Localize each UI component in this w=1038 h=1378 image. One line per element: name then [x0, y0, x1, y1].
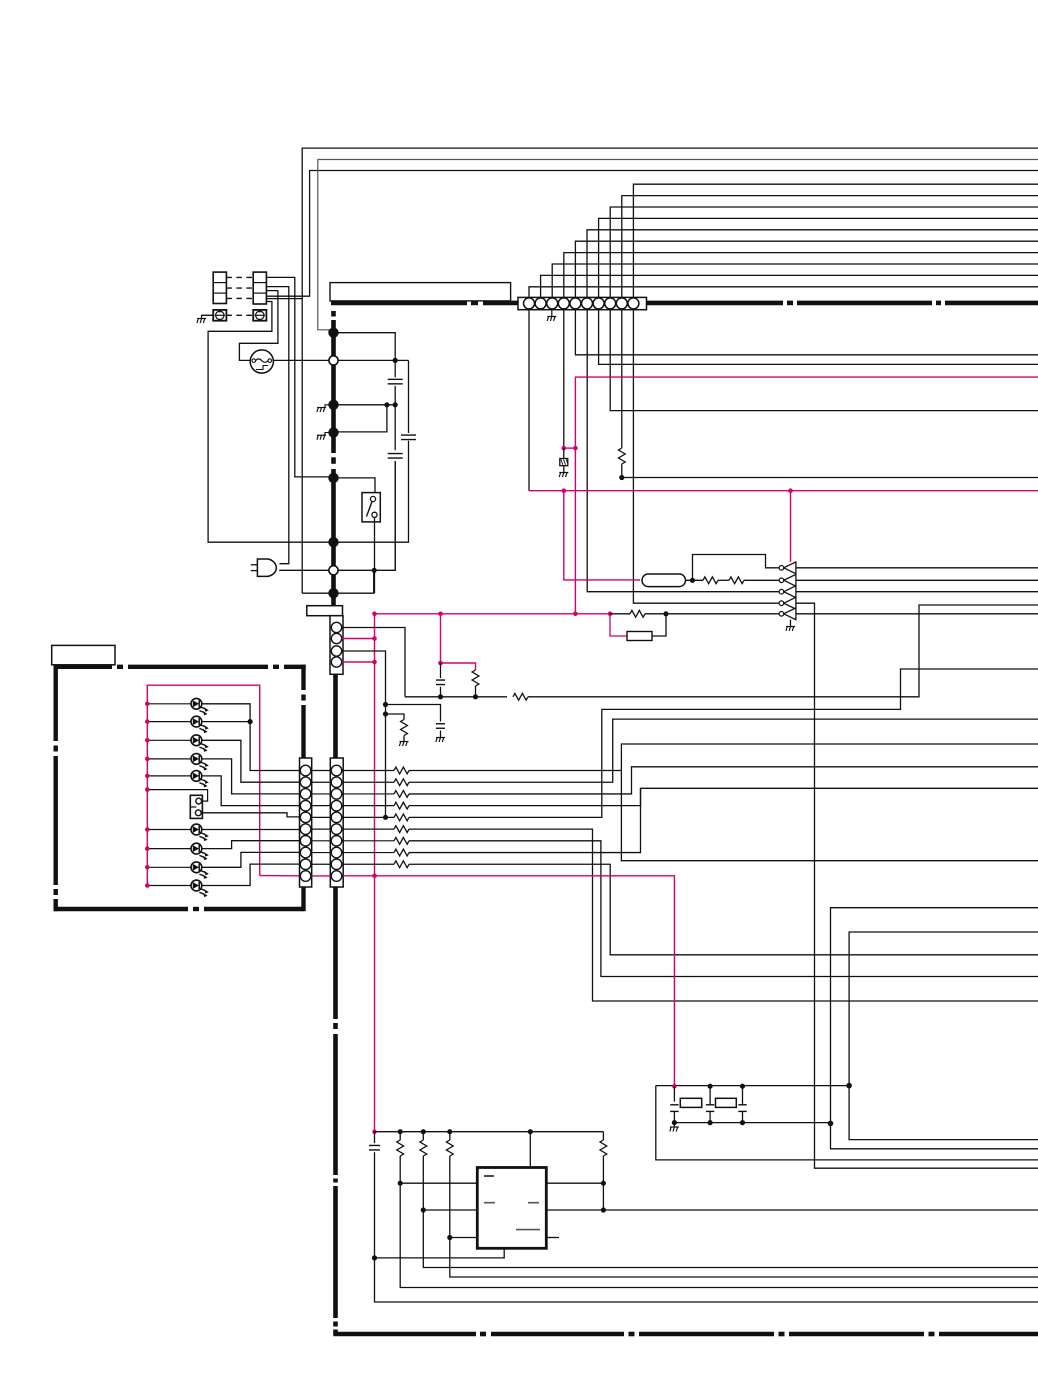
wire CN5 row4 to resistor: [343, 805, 394, 807]
caps cluster bottom rail: [674, 1122, 830, 1124]
wire LED D2 cathode to CN4 row1: [202, 721, 250, 723]
junction dot pin left1: [398, 1181, 403, 1186]
resistor R14: [394, 814, 409, 821]
wire row9 jog to line y954: [409, 864, 1038, 955]
wire J1 to ground: [202, 315, 214, 318]
dashed mating wires P1-P2: [226, 277, 253, 298]
wire R21 node to line y1277: [450, 1238, 1038, 1278]
cap C8: [742, 1086, 744, 1105]
bus junction dot C (protector node): [328, 473, 338, 483]
wire CN5 row2 to resistor: [343, 781, 394, 783]
connector CN2 housing: [330, 616, 343, 675]
junction dot C9 bottom: [372, 1255, 377, 1260]
AC plug PL1: [257, 559, 276, 576]
resistor R21: [449, 1132, 451, 1140]
staircase wire from CN1 pin 1 to right edge: [529, 287, 1038, 298]
thick bus below CN5 (long, to bottom): [333, 887, 338, 1019]
LED D10 anode wire: [147, 885, 191, 887]
caps cluster left side + bottom line: [656, 1086, 1038, 1160]
thick chassis bus (horizontal right segment): [647, 301, 784, 306]
ferrite bead FB1 (box): [627, 632, 652, 641]
magenta junction LED D8: [145, 846, 150, 851]
junction dot D1/D2: [248, 719, 253, 724]
junction dots on y697: [438, 694, 443, 699]
resistor R2: [703, 577, 718, 584]
buffer1 output line: [796, 567, 1038, 569]
junction dot loop top: [384, 402, 389, 407]
connector CN5 pin 9: [331, 859, 342, 870]
connector CN1 pin 3: [547, 298, 558, 309]
wire IC pin left2: [423, 1209, 477, 1211]
magenta junction dot VCC1/buffer: [788, 488, 793, 493]
wire cap chain mid: [394, 360, 396, 377]
connector CN4 pin 7: [300, 836, 311, 847]
bus junction dot with ground B: [328, 427, 338, 437]
junction dot pin left2: [421, 1207, 426, 1212]
junction dot R1 bottom: [619, 475, 624, 480]
interconnect wire row 9: [312, 863, 331, 865]
wire LED D7 cathode to CN4 row6: [202, 829, 299, 831]
connector CN1 housing (10-pin row): [518, 297, 647, 309]
wire P2 pin3 to AC source: [239, 291, 278, 361]
wire LED D4 cathode to CN4 row3: [202, 759, 299, 794]
connector CN2 pin 3: [331, 646, 341, 656]
wire bus circle to cap chain bottom: [338, 461, 395, 570]
resistor R17: [394, 849, 409, 856]
interconnect wire row 6: [312, 828, 331, 830]
cap C3 (right loop): [401, 435, 416, 440]
connector CN4 pin 4: [300, 800, 311, 811]
cap C9: [374, 1132, 376, 1144]
wire R4 to node: [645, 613, 666, 615]
cap C2 (chain bottom): [388, 454, 403, 459]
wire loop dotA-dotB: [334, 405, 387, 432]
junction dot switch/plug wire: [372, 568, 377, 573]
magenta junction LED D1: [145, 702, 150, 707]
LED D5 anode wire: [147, 775, 191, 777]
wire row2 jog to line y719: [409, 719, 1038, 782]
LED D3: [191, 735, 209, 752]
junction dot on cap chain: [393, 402, 398, 407]
AC receptacle J2: [253, 310, 266, 321]
module label box: [52, 645, 115, 664]
wire P2 pin2 to AC plug: [266, 287, 288, 564]
wire loop P2 bottom to cap chain: [208, 302, 408, 543]
connector CN5 pin 10: [331, 871, 342, 882]
AC receptacle J1: [213, 310, 226, 321]
caps cluster top rail: [656, 1085, 849, 1087]
wire R19 node to line y1287: [400, 1183, 1038, 1287]
junction dots on x385 branch: [383, 702, 388, 707]
junction dot pin right1: [601, 1181, 606, 1186]
wire row1 jog to line y744: [409, 744, 1038, 771]
cap C1 (chain top): [388, 379, 403, 384]
ground stub caps cluster: [673, 1123, 675, 1127]
connector housing box (bus exit): [307, 606, 343, 616]
wire R20 node to line y1267: [423, 1210, 1038, 1268]
LED D7 anode wire: [147, 829, 191, 831]
wire CN5 row6 to resistor: [343, 828, 394, 830]
connector CN5 housing: [330, 758, 343, 887]
staircase wire from CN1 pin 6 to right edge: [587, 230, 1038, 298]
wire bus-top dot to cap chain: [334, 333, 396, 361]
ground G1: [197, 319, 206, 324]
resonator X1 (oval): [642, 574, 686, 587]
wire row6 jog to line y1001: [409, 829, 1038, 1001]
bypass loop over X1: [693, 555, 780, 581]
cap C6: [673, 1086, 675, 1101]
wire CN1 pin5 down to line y355: [575, 310, 1038, 355]
magenta junction C4 top: [438, 661, 443, 666]
wire plug to bus circle: [279, 569, 329, 571]
LED D2 anode wire: [147, 721, 191, 723]
magenta wire rail to CN4 row10: [260, 875, 299, 877]
connector CN5 pin 4: [331, 800, 342, 811]
magenta drop to bead FB1: [610, 614, 627, 636]
magenta junction LED D9: [145, 865, 150, 870]
staircase wire from CN1 pin 4 to right edge: [564, 253, 1038, 298]
staircase wire from CN1 pin 10 to right edge: [633, 184, 1038, 298]
wire P2 pin1 to bus dot (node PROT): [266, 277, 329, 477]
resistor R10: [394, 767, 409, 774]
wire node N1 across bus dot E: [302, 592, 333, 594]
wire FL1 to bus (AC line): [273, 359, 394, 361]
AC noise filter FL1 (circle symbol): [250, 350, 273, 373]
wire R3 to buffer2: [744, 579, 780, 581]
LED D5: [191, 771, 209, 788]
magenta LED-anode bus (left rail): [147, 685, 259, 885]
wire IC pin left1: [400, 1182, 477, 1184]
resistor R5: [472, 670, 479, 686]
connector CN4 pin 2: [300, 777, 311, 788]
wire switch to plug node: [374, 517, 376, 593]
connector CN5 pin 1: [331, 765, 342, 776]
wire R4 left stub: [610, 613, 630, 615]
wire + ground at bus dot B: [325, 433, 334, 436]
connector CN1 pin 4: [558, 298, 569, 309]
ground stub buffer array: [790, 620, 792, 627]
connector CN1 pin 7: [593, 298, 604, 309]
junction dots C8: [740, 1084, 745, 1089]
magenta net VCC1 (y=491): [529, 490, 1038, 492]
wire LED D8 cathode to CN4 row7: [202, 841, 299, 849]
ground under surge absorber: [559, 473, 568, 478]
connector CN2 pin 2: [331, 633, 341, 643]
connector CN1 pin 10: [628, 298, 639, 309]
magenta wire to key switch: [147, 790, 207, 802]
wire cluster to page-edge line A: [266, 171, 1038, 297]
connector CN5 pin 5: [331, 812, 342, 823]
staircase wire from CN1 pin 2 to right edge: [541, 275, 1038, 298]
bus open-circle node (AC line crossing): [329, 356, 338, 365]
LED D1 anode wire: [147, 703, 191, 705]
wire vertical x621 to line y860: [621, 770, 1038, 861]
magenta junction CN2 pin2: [372, 636, 377, 641]
white spacer rect over bus: [330, 283, 511, 301]
junction dot loop/bus: [329, 537, 339, 547]
staircase wire from CN1 pin 9 to right edge: [622, 196, 1038, 298]
resistor R11: [394, 779, 409, 786]
wire IC bottom pin: [375, 1248, 505, 1258]
wire CN1 pin4 down to surge absorber: [563, 310, 565, 449]
magenta junction LED D4: [145, 757, 150, 762]
cap C4: [440, 663, 442, 678]
wire CN1 pin10 down to buffer4: [633, 310, 779, 604]
wire LED D9 cathode to CN4 row8: [202, 852, 299, 867]
magenta junction dot VCC1/oval branch: [562, 488, 567, 493]
wire cap chain lower: [394, 461, 396, 570]
resistor R22: [602, 1132, 604, 1140]
wire LED D10 cathode to CN4 row9: [202, 864, 299, 885]
key switch SW2: [190, 795, 202, 818]
resistor R19: [399, 1132, 401, 1140]
magenta stub at surge absorber: [564, 447, 576, 449]
resistor R15: [394, 826, 409, 833]
LED D8 anode wire: [147, 848, 191, 850]
magenta wire down to resonator: [564, 491, 640, 580]
connector CN1 pin 1: [524, 298, 535, 309]
LED D3 anode wire: [147, 739, 191, 741]
wire node to buffer5 input: [666, 613, 779, 615]
interconnect wire row 5: [312, 816, 331, 818]
magenta wire CN5 row10 to caps: [343, 876, 674, 1086]
bus junction dot D: [328, 537, 338, 547]
wire CN5 row5 to resistor: [343, 816, 394, 818]
wire IC pin right2 (long): [546, 1209, 1038, 1211]
connector CN4 housing: [300, 758, 312, 887]
wire R2-R3: [718, 579, 729, 581]
wire L-net A (y908 to y1149): [831, 908, 1038, 1149]
junction dot caps-top/L-net B: [846, 1083, 852, 1089]
magenta junction LED D2: [145, 719, 150, 724]
wire CN1 pin8 down to line y411: [610, 310, 1038, 411]
connector P2 (3-pin housing): [253, 272, 266, 304]
magenta net y377 corner: [575, 377, 1038, 614]
magenta wire to R5: [441, 663, 476, 670]
magenta junction IC top rail: [372, 1129, 377, 1134]
connector CN1 pin 5: [570, 298, 581, 309]
connector CN1 pin 2: [535, 298, 546, 309]
LED D4 anode wire: [147, 758, 191, 760]
wire row5 jog to nested line: [409, 669, 1038, 817]
magenta net y614: [375, 613, 611, 615]
wire CN1 pin6 down to buffer3: [587, 310, 780, 592]
bus junction dot with ground A: [328, 400, 338, 410]
wire row4 jog to line y788: [409, 788, 1038, 805]
resistor R16: [394, 837, 409, 844]
buffer array IC2 (5 inverters): [784, 562, 796, 574]
connector CN1 pin 8: [605, 298, 616, 309]
junction dot pin right2: [601, 1207, 606, 1212]
resistor block RB2: [716, 1098, 737, 1107]
wire R1 to line y477: [621, 464, 623, 478]
magenta junction dots (stub): [562, 446, 567, 451]
connector CN1 pin 6: [582, 298, 593, 309]
magenta junction dots y614: [438, 612, 443, 617]
magenta junction LED D7: [145, 827, 150, 832]
junction dot AC/cap chain: [393, 358, 398, 363]
IC top rail: [375, 1131, 604, 1133]
connector CN1 pin 9: [616, 298, 627, 309]
wire L-net B (y932 to y1140): [849, 932, 1038, 1140]
magenta junction key switch row: [145, 787, 150, 792]
wire CN1 pin1 down (magenta net source): [528, 310, 530, 491]
LED D7: [191, 824, 209, 841]
dashed wire J1-J2: [226, 314, 253, 316]
connector CN2 pin 4: [331, 657, 341, 667]
gray wire page-edge line C to bus top dot: [318, 160, 1038, 333]
magenta drop to C4/R5: [440, 614, 442, 663]
bus junction dot E (bottom): [328, 588, 338, 598]
connector CN4 pin 3: [300, 789, 311, 800]
magenta junction LED D10: [145, 883, 150, 888]
resistor R18: [394, 861, 409, 868]
junction dot pin left3: [447, 1235, 452, 1240]
connector CN4 pin 5: [300, 812, 311, 823]
resistor R4: [630, 610, 645, 617]
IC U1 (reset/regulator): [477, 1168, 546, 1249]
cap C7: [709, 1086, 711, 1105]
wire cluster to page-edge line B and node N1: [266, 299, 302, 594]
shield frame (left module, dash-dot border): [54, 665, 113, 669]
staircase wire from CN1 pin 3 to right edge: [552, 264, 1038, 298]
junction dot X1 out: [690, 578, 695, 583]
wire CN5 row9 to resistor: [343, 863, 394, 865]
interconnect wire row 3: [312, 793, 331, 795]
cap C5 to ground: [386, 705, 441, 722]
magenta junction CN2 pin4: [372, 660, 377, 665]
connector CN4 pin 6: [300, 824, 311, 835]
connector CN5 pin 7: [331, 836, 342, 847]
interconnect wire row 1: [312, 770, 331, 772]
connector CN4 pin 1: [300, 765, 311, 776]
bus open-circle node (plug line): [329, 566, 338, 575]
magenta junction LED D3: [145, 738, 150, 743]
connector CN5 pin 2: [331, 777, 342, 788]
magenta junction LED D5: [145, 774, 150, 779]
magenta junction on caps top rail: [672, 1084, 677, 1089]
LED D4: [191, 754, 209, 771]
staircase wire from CN1 pin 8 to right edge: [610, 207, 1038, 298]
magenta wire CN2 pin4: [342, 661, 375, 663]
wire bus dot C to switch: [334, 478, 376, 494]
power switch SW1: [362, 493, 380, 522]
junction dot R4 right: [663, 611, 668, 616]
wire CN5 row7 to resistor: [343, 840, 394, 842]
LED D1: [191, 698, 209, 715]
wire CN1 pin9 down to resistor R1: [621, 310, 623, 449]
resistor R3: [729, 577, 744, 584]
LED D2: [191, 716, 209, 733]
magenta junction y614/vertical: [372, 612, 377, 617]
staircase wire from CN1 pin 7 to right edge: [599, 218, 1038, 298]
wire IC pin left3: [450, 1237, 478, 1239]
wire row7 jog to line y976: [409, 841, 1038, 977]
ground stub CN1 pin 3: [551, 310, 553, 317]
interconnect wire row 7: [312, 840, 331, 842]
net y697 with resistor R6: [405, 696, 507, 698]
resistor R12: [394, 791, 409, 798]
LED D9 anode wire: [147, 866, 191, 868]
IC stub pin right3: [546, 1237, 559, 1239]
resistor R7 to ground: [386, 714, 405, 720]
surge absorber Z1: [563, 448, 565, 458]
wire CN2 pin1 to RC node: [342, 628, 405, 697]
wire LED D3 cathode to CN4 row2: [202, 740, 299, 782]
interconnect wire row 8: [312, 852, 331, 854]
wire key switch to CN4 row5: [202, 813, 299, 817]
buffer2 output line: [796, 579, 1038, 581]
junction dots C7: [708, 1084, 713, 1089]
thick bus CN2 to CN4: [333, 674, 338, 758]
resistor block RB1: [680, 1098, 701, 1107]
junction dot caps bottom-left: [672, 1120, 677, 1125]
wire IC pin right1 to R22: [546, 1182, 603, 1184]
junction dot caps-bottom/L-net A: [828, 1121, 834, 1127]
wire FB1 to node: [652, 614, 666, 636]
buffer4 output to lower right: [796, 603, 1038, 1168]
magenta junction row10/vertical: [372, 874, 377, 879]
thick chassis bus (vertical, top section): [331, 311, 336, 317]
buffer3 output line: [796, 591, 1038, 593]
LED D8: [191, 843, 209, 860]
magenta wire CN2 pin2: [342, 638, 375, 640]
connector CN4 pin 10: [300, 871, 311, 882]
wire X1 out: [686, 579, 704, 581]
resistor R20: [422, 1132, 424, 1140]
buffer5 output line: [796, 613, 1038, 615]
magenta vertical to lower circuits: [374, 614, 376, 1132]
wire CN5 row1 to resistor: [343, 770, 394, 772]
thick chassis bus (bottom horizontal): [333, 1332, 476, 1337]
junction dots IC top rail: [398, 1129, 403, 1134]
connector CN4 pin 9: [300, 859, 311, 870]
LED D10: [191, 880, 209, 897]
connector CN5 pin 3: [331, 789, 342, 800]
LED D9: [191, 862, 209, 879]
connector P1 (3-pin housing): [213, 272, 226, 303]
wire LED D5 cathode to CN4 row4: [202, 776, 299, 806]
wire C9 node to line y1302: [375, 1258, 1038, 1302]
magenta wire down to buffer stack: [790, 491, 792, 562]
bus junction dot N-top: [328, 328, 338, 338]
connector CN2 pin 1: [331, 622, 341, 632]
wire + ground at bus dot A: [325, 405, 334, 408]
wire CN1 pin7 down to line y364: [599, 310, 1038, 365]
interconnect wire row 4: [312, 805, 331, 807]
staircase wire from CN1 pin 5 to right edge: [575, 241, 1038, 298]
junction dot x385 bottom: [383, 815, 388, 820]
wire CN5 row3 to resistor: [343, 793, 394, 795]
wire CN2 pin3 down: [342, 651, 386, 817]
resistor R13: [394, 802, 409, 809]
wire bus dot A to cap chain: [334, 404, 396, 406]
connector CN5 pin 6: [331, 824, 342, 835]
magenta interconnect row 10: [312, 875, 331, 877]
wire IC top pin: [529, 1132, 531, 1168]
wire LED D1 cathode: [202, 704, 250, 722]
connector CN4 pin 8: [300, 847, 311, 858]
wire row3 jog to line y766: [409, 767, 1038, 794]
thick chassis bus (horizontal left segment): [331, 301, 467, 306]
wire cap C3 top: [408, 360, 410, 433]
connector CN5 pin 8: [331, 847, 342, 858]
interconnect wire row 2: [312, 781, 331, 783]
wire row8 jog up: [409, 788, 641, 852]
wire CN5 row8 to resistor: [343, 852, 394, 854]
resistor R1: [618, 448, 625, 464]
